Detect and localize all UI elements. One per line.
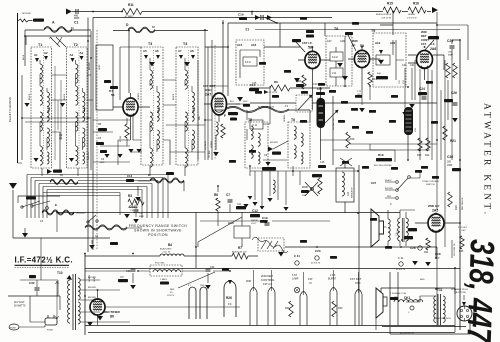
filament riser curves <box>250 288 362 297</box>
tube V4 2nd IF <box>354 50 369 67</box>
arrow T1 right <box>44 56 48 60</box>
coil A <box>44 27 72 33</box>
resistor R30 <box>332 301 336 317</box>
svg-text:C 31: C 31 <box>294 254 300 258</box>
coil T2 s2 <box>76 112 78 131</box>
wire r15 r16 drop <box>380 12 393 36</box>
svg-text:OSC: OSC <box>461 230 466 232</box>
tube V5 2A6 <box>417 51 433 69</box>
svg-text:B4: B4 <box>168 243 172 247</box>
coil F <box>225 106 289 112</box>
speaker cabinet wiring <box>381 288 470 334</box>
svg-text:.4 W 1/2 W: .4 W 1/2 W <box>381 18 391 20</box>
svg-text:1ST DET: 1ST DET <box>350 277 362 281</box>
svg-text:E: E <box>55 203 57 207</box>
wire v4 bias <box>362 86 370 105</box>
wire v1 links <box>93 118 130 162</box>
svg-text:C29: C29 <box>435 252 441 256</box>
svg-text:VOLT: VOLT <box>251 223 257 225</box>
svg-text:R19: R19 <box>378 153 384 157</box>
power plug <box>45 315 57 325</box>
svg-text:BROWN: BROWN <box>88 277 96 279</box>
label blob osc grid <box>110 86 118 89</box>
wire rail D2 <box>43 192 120 194</box>
wire r7 rail <box>196 255 258 257</box>
svg-text:C25: C25 <box>447 39 453 43</box>
svg-text:BROWN: BROWN <box>88 287 96 289</box>
wire t10 taps <box>80 280 130 322</box>
resistor R22 <box>426 138 430 151</box>
wire left steps <box>56 213 58 233</box>
svg-text:RED-GRAY 2W: RED-GRAY 2W <box>453 243 456 256</box>
svg-text:GREEN: GREEN <box>138 93 140 100</box>
svg-text:INSULATOR: INSULATOR <box>351 187 354 198</box>
ground t5 <box>265 162 270 166</box>
coil T5 d <box>258 152 260 164</box>
transformer T3 box <box>141 47 163 165</box>
wire plug leads <box>30 296 60 322</box>
svg-text:14 Ω: 14 Ω <box>378 58 384 62</box>
wire lower left vert <box>84 254 86 335</box>
heater loop 2 <box>200 287 207 319</box>
resistor R21 <box>443 126 447 140</box>
wire y36 rail <box>26 35 91 37</box>
svg-text:R21: R21 <box>450 139 456 143</box>
coil T1 s2 <box>40 112 42 131</box>
svg-text:GREY: GREY <box>99 64 101 70</box>
wire tube1 leads <box>113 93 150 140</box>
arrow plug <box>462 302 466 306</box>
svg-text:FILD GEL: FILD GEL <box>155 263 166 265</box>
svg-text:C19: C19 <box>262 216 268 220</box>
svg-text:GROUND: GROUND <box>22 13 31 15</box>
ground v4 <box>342 76 348 81</box>
svg-text:TONE CONTROL: TONE CONTROL <box>422 181 440 183</box>
svg-text:C13: C13 <box>313 83 318 86</box>
svg-text:F: F <box>224 114 226 118</box>
label v6 blob1 <box>408 228 417 231</box>
label c12 blob <box>250 214 260 217</box>
wire sw2 links <box>41 228 142 280</box>
wire c25 link <box>444 40 460 70</box>
ground c34 <box>205 285 211 289</box>
ground v3 <box>294 78 300 83</box>
coil T5 c <box>258 133 260 146</box>
ground c33 <box>130 285 136 289</box>
svg-text:14 Ω: 14 Ω <box>245 60 251 64</box>
wire fil risers2 <box>390 272 398 326</box>
coil B4 <box>160 254 184 256</box>
label C17 blob <box>316 92 325 95</box>
wire choke rail <box>85 271 230 283</box>
transformer T2 box <box>67 47 88 168</box>
capacitor C26 <box>453 103 458 105</box>
svg-text:T5: T5 <box>248 118 252 122</box>
resistor R16 <box>408 7 426 13</box>
svg-text:T11: T11 <box>437 288 443 292</box>
tube V6 2A5 <box>428 214 444 232</box>
svg-text:.47 MEG: .47 MEG <box>124 16 134 19</box>
pilot lamp <box>294 287 299 292</box>
svg-text:C 31: C 31 <box>398 256 404 260</box>
wire out leads <box>400 210 415 246</box>
coil output transformer secondary <box>406 218 408 241</box>
capacitor C1 <box>76 9 78 14</box>
svg-text:RED: RED <box>199 115 201 120</box>
svg-text:40 VOLTS: 40 VOLTS <box>311 263 321 265</box>
coil T3 b <box>157 92 159 111</box>
ground ef1 <box>135 197 141 201</box>
wire rail y247 <box>285 246 437 248</box>
label blob v2 a <box>228 112 238 115</box>
label c13 blob <box>126 179 134 182</box>
svg-text:C12: C12 <box>252 209 258 213</box>
box quarter ohm <box>250 120 263 129</box>
svg-text:C26: C26 <box>451 91 457 95</box>
arrow modulator <box>309 93 314 98</box>
wire spk bottom <box>375 318 377 330</box>
resistor R27 <box>289 301 293 317</box>
coil T3 x1 <box>157 108 159 121</box>
svg-text:A16: A16 <box>251 43 257 47</box>
svg-text:I F: I F <box>309 281 312 285</box>
capacitor C34 <box>206 269 211 271</box>
coil T4 c <box>185 112 187 131</box>
svg-text:1 W 1/2 W: 1 W 1/2 W <box>407 18 416 20</box>
resistor R9 <box>270 85 290 91</box>
svg-text:FREQUENCY RANGE SWITCH: FREQUENCY RANGE SWITCH <box>129 224 188 228</box>
wire riser stubs <box>254 270 359 295</box>
svg-text:C27: C27 <box>371 181 377 185</box>
coil T2 p2 <box>76 86 78 105</box>
ground t7 <box>237 97 243 102</box>
coil T3 a <box>150 70 152 89</box>
svg-text:C11: C11 <box>237 203 242 206</box>
wire T4 dotted <box>188 50 190 163</box>
wire A leads <box>25 29 91 31</box>
ground T3 <box>149 62 155 67</box>
label blob 268 <box>296 84 304 87</box>
wire r20 leads <box>407 134 409 160</box>
resistor R26 tall loop <box>224 281 236 317</box>
speaker small cone <box>371 209 384 247</box>
arrow T3 r <box>156 55 160 59</box>
arrow top right <box>432 7 438 13</box>
coil T3 d <box>157 130 159 149</box>
coil T6 a <box>294 126 296 139</box>
label sw blob <box>26 197 36 200</box>
wire rail y88 <box>250 87 330 89</box>
wire ef leads <box>138 181 184 196</box>
svg-text:2A6: 2A6 <box>430 47 436 51</box>
capacitor C24 <box>422 97 427 99</box>
coil T4 x1 <box>192 108 194 121</box>
wire if area mesh <box>236 86 270 140</box>
wire rail C <box>35 181 158 219</box>
svg-text:C23: C23 <box>402 64 407 67</box>
capacitor C28 sym <box>418 246 422 250</box>
arrow variable cap <box>335 108 340 113</box>
wire T2 internals <box>76 60 83 150</box>
svg-text:A5: A5 <box>143 49 147 53</box>
svg-text:ATWATER KENT.: ATWATER KENT. <box>483 103 493 217</box>
arrow T2 right <box>80 56 84 60</box>
svg-text:REF: REF <box>170 289 175 291</box>
svg-text:R23: R23 <box>417 154 422 157</box>
wire rail y103 <box>250 102 437 104</box>
svg-text:SWITCH: SWITCH <box>426 184 435 186</box>
svg-text:MMF: MMF <box>139 216 145 218</box>
wire tube1 bottom mesh <box>118 140 142 165</box>
svg-text:T6: T6 <box>291 118 295 122</box>
transformer T11 core <box>438 294 441 325</box>
wire T1 dotted <box>43 50 45 165</box>
svg-text:1ST DET: 1ST DET <box>458 227 468 229</box>
resistor R23 <box>418 138 422 151</box>
ground ef2 <box>124 214 130 218</box>
switch modulator dashed <box>296 95 312 112</box>
svg-text:RED: RED <box>387 196 392 198</box>
wire T2 dotted <box>78 50 80 165</box>
wire rail B <box>31 178 163 219</box>
wire T7 shape <box>240 50 260 78</box>
svg-text:R14: R14 <box>347 191 350 196</box>
label c10 blob <box>301 190 309 193</box>
box t9 ohm <box>376 55 390 65</box>
wire top right link <box>255 25 468 60</box>
dimension arrow t10 <box>56 281 59 319</box>
capacitor C31 sym <box>295 261 299 265</box>
wire tube2 leads <box>204 20 240 122</box>
wire b4 rail <box>85 255 196 257</box>
wire grid bias vert <box>205 30 212 160</box>
svg-text:80: 80 <box>110 315 114 319</box>
diagonal resistor wavy lower <box>252 237 288 252</box>
ground v6b <box>425 262 431 266</box>
coil T1 x2 <box>47 152 49 164</box>
resistor R2b <box>125 124 129 138</box>
svg-text:BLOC 1/2 W: BLOC 1/2 W <box>266 92 277 94</box>
box resistor R14 <box>336 168 354 202</box>
wire v3 bias <box>312 95 314 110</box>
svg-text:C7: C7 <box>226 193 230 197</box>
capacitor C16 <box>261 15 263 20</box>
wire filament bus top <box>85 325 455 327</box>
ground c26 <box>452 118 458 122</box>
resistor R15 <box>383 7 401 13</box>
coil v2 cathode <box>216 122 218 135</box>
ground t8 <box>337 63 343 67</box>
arrow t9 <box>379 50 383 54</box>
svg-text:2ND A F: 2ND A F <box>428 204 440 208</box>
wire tone leads <box>385 182 395 198</box>
coil T11 sec <box>443 296 445 322</box>
capacitor C31b sym <box>399 262 403 266</box>
wire left verts <box>25 30 91 170</box>
svg-text:A8: A8 <box>190 49 194 53</box>
capacitor C7 <box>228 200 233 202</box>
switch S3 diag <box>340 158 352 166</box>
wire c4a lead <box>135 205 137 218</box>
svg-text:POSITION: POSITION <box>148 233 168 237</box>
coil speaker field <box>388 219 390 241</box>
resistor R7 <box>232 253 248 259</box>
coil field CK1 <box>394 300 423 302</box>
svg-text:BLK: BLK <box>230 101 234 103</box>
ground c12 <box>243 204 248 208</box>
coil T2 sec <box>83 92 85 111</box>
potentiometer R20 volume control <box>404 107 413 135</box>
svg-text:RED-CAEONTH: RED-CAEONTH <box>436 317 451 320</box>
svg-text:BLK-YELLOW-RED: BLK-YELLOW-RED <box>374 165 392 167</box>
svg-text:C10: C10 <box>302 185 308 189</box>
resistor R25 <box>460 236 464 249</box>
ground v2 <box>213 152 219 156</box>
svg-text:BLACK: BLACK <box>63 93 66 100</box>
svg-text:1ST: 1ST <box>308 277 313 281</box>
svg-text:T7: T7 <box>245 28 249 32</box>
wire v6 leads <box>415 212 460 258</box>
resistor R12 <box>318 178 322 194</box>
coil T3 c <box>150 112 152 131</box>
speaker plug circle <box>457 306 472 321</box>
label blob v3 g <box>306 30 314 33</box>
coil T4 b <box>192 92 194 111</box>
switch contact wc <box>311 188 314 191</box>
ground spine1 <box>104 154 109 158</box>
coil T10 primary <box>68 280 70 323</box>
wire plug wire <box>19 325 45 327</box>
svg-text:1ST BLK: 1ST BLK <box>209 150 211 158</box>
svg-text:BLK-WHITE TR: BLK-WHITE TR <box>400 333 415 335</box>
svg-text:A7: A7 <box>178 49 182 53</box>
transformer T1 box <box>31 47 52 168</box>
resistor R6 <box>216 198 220 211</box>
label c16 blob <box>239 17 247 20</box>
wire plug arrow lead <box>463 295 465 300</box>
svg-text:C13: C13 <box>127 174 133 178</box>
coil T1 x1 <box>47 108 49 121</box>
coil T4 d <box>192 130 194 149</box>
underline IF text <box>15 264 70 266</box>
ground c32 <box>97 316 103 321</box>
label c15 blob <box>318 165 326 168</box>
wire dash mid <box>214 45 216 160</box>
wire bottom left rail <box>8 295 60 297</box>
wire t9 mesh <box>393 40 404 80</box>
wire left ground bus <box>17 13 19 163</box>
wire ref arrow <box>178 272 215 288</box>
wire T1 internals <box>40 60 47 150</box>
wire tone top <box>409 171 420 178</box>
box T8 2ohm <box>330 68 343 77</box>
box T7 14ohm <box>243 57 257 66</box>
svg-text:A: A <box>52 21 55 25</box>
svg-text:OSC: OSC <box>205 88 212 92</box>
resistor R21c <box>453 63 457 78</box>
svg-text:C15: C15 <box>252 82 257 85</box>
svg-text:BLUE: BLUE <box>23 54 25 60</box>
svg-text:.2 Ω 1 W: .2 Ω 1 W <box>162 252 170 254</box>
wire lower divider <box>85 268 460 270</box>
wire rf inter verts <box>55 66 61 160</box>
svg-text:C: C <box>390 203 392 206</box>
resistor R18 <box>346 132 350 148</box>
wire osc switch frame <box>13 190 110 238</box>
svg-text:C4A: C4A <box>129 205 136 209</box>
svg-text:MMF: MMF <box>100 162 105 164</box>
label v6 blob2 <box>404 236 413 239</box>
tube V7 rectifier 80 <box>90 299 105 315</box>
svg-text:2ND: 2ND <box>200 285 205 287</box>
svg-text:1ST A F: 1ST A F <box>263 282 273 286</box>
label r19 blob <box>376 158 392 161</box>
ground T1 left <box>24 103 29 107</box>
ground rect <box>87 322 93 326</box>
svg-text:BLACK: BLACK <box>385 179 392 182</box>
label 2a6 blob <box>428 36 439 39</box>
coil osc pad <box>273 180 275 193</box>
coil T5 b <box>251 145 253 158</box>
svg-text:BLACK TO GROUND: BLACK TO GROUND <box>8 97 12 122</box>
label spine blob4 <box>100 150 107 153</box>
svg-text:BROWN: BROWN <box>270 142 278 144</box>
coil EF <box>150 178 184 183</box>
svg-text:14 Ω: 14 Ω <box>332 55 338 59</box>
svg-text:A17: A17 <box>327 39 332 43</box>
svg-text:R24: R24 <box>424 251 429 254</box>
label spine blob1 <box>104 80 111 83</box>
ground mc1b <box>248 196 253 200</box>
svg-text:R18: R18 <box>350 138 355 141</box>
wire sw links <box>18 196 85 233</box>
ground v4b <box>359 108 365 112</box>
wire center rf mesh <box>120 47 198 176</box>
coil T6 b <box>294 145 296 158</box>
wire filament bus bottom <box>88 332 455 334</box>
filament risers <box>250 292 362 326</box>
ground mc4 <box>283 207 288 211</box>
label grid blob v4 <box>345 32 353 35</box>
svg-text:FUSE: FUSE <box>10 328 16 330</box>
wire v5 leads <box>408 40 444 80</box>
svg-text:A4: A4 <box>80 51 84 55</box>
switch S2 contacts <box>87 215 98 223</box>
svg-text:CONTROL: CONTROL <box>261 278 275 282</box>
wire jumpers <box>50 37 66 47</box>
wire spine dash <box>96 30 98 250</box>
ground T2 left <box>60 103 65 107</box>
switch tone control contacts <box>396 176 411 200</box>
svg-text:RECTIFIER: RECTIFIER <box>104 310 121 314</box>
svg-text:A2: A2 <box>44 51 48 55</box>
svg-text:OMF: OMF <box>447 164 453 167</box>
coil G <box>85 225 127 230</box>
transformer T8 box <box>326 36 352 86</box>
svg-text:C20: C20 <box>315 249 321 253</box>
label blob osc low <box>110 242 118 245</box>
wire top bus <box>72 11 431 13</box>
svg-text:318, 447: 318, 447 <box>459 239 500 342</box>
wire rail E2 <box>47 195 120 197</box>
capacitor C20 sym <box>315 256 319 260</box>
svg-text:C34: C34 <box>210 266 215 269</box>
wire T4 internals <box>185 58 192 152</box>
label C14 blob <box>249 88 259 91</box>
svg-text:A1: A1 <box>34 53 38 57</box>
coil T2 primary <box>76 64 78 83</box>
coil T10 sec a <box>78 278 80 300</box>
